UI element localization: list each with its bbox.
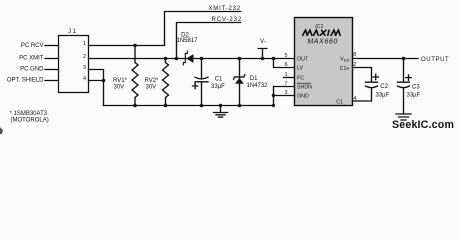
svg-text:30V: 30V — [146, 84, 157, 90]
svg-text:RCV-232: RCV-232 — [212, 17, 243, 23]
svg-text:33µF: 33µF — [211, 84, 225, 90]
svg-text:* 1SMB30AT3: * 1SMB30AT3 — [10, 111, 48, 117]
svg-text:8: 8 — [353, 52, 356, 58]
svg-text:3: 3 — [83, 65, 86, 71]
svg-text:SeekIC.com: SeekIC.com — [392, 119, 454, 131]
svg-text:PC XMIT: PC XMIT — [19, 55, 44, 61]
svg-text:VDD: VDD — [340, 57, 349, 63]
svg-text:D1: D1 — [250, 76, 258, 82]
svg-text:1N4732: 1N4732 — [247, 83, 269, 89]
svg-text:XMIT-232: XMIT-232 — [209, 6, 241, 12]
svg-text:(MOTOROLA): (MOTOROLA) — [11, 117, 49, 123]
svg-text:4: 4 — [353, 96, 356, 102]
svg-text:C3: C3 — [412, 84, 420, 90]
svg-text:PC GND: PC GND — [20, 67, 44, 73]
svg-text:4: 4 — [83, 76, 86, 82]
svg-text:2: 2 — [353, 62, 356, 68]
svg-text:SHDN: SHDN — [297, 85, 312, 91]
svg-text:30V: 30V — [114, 84, 125, 90]
svg-text:1N5817: 1N5817 — [176, 38, 198, 44]
svg-text:33µF: 33µF — [407, 93, 421, 99]
svg-text:C1+: C1+ — [340, 66, 350, 72]
svg-text:5: 5 — [284, 53, 287, 59]
svg-text:V-: V- — [260, 39, 266, 45]
svg-text:1: 1 — [83, 41, 86, 47]
svg-text:J 1: J 1 — [68, 29, 77, 35]
svg-text:RV2*: RV2* — [145, 78, 160, 84]
svg-text:33µF: 33µF — [376, 92, 390, 98]
svg-text:OUT: OUT — [297, 57, 309, 63]
svg-text:1: 1 — [284, 72, 287, 78]
svg-text:FC: FC — [297, 76, 304, 82]
svg-text:GND: GND — [297, 94, 309, 100]
svg-text:RV1*: RV1* — [113, 78, 128, 84]
svg-text:OPT. SHIELD: OPT. SHIELD — [7, 78, 44, 84]
svg-text:6: 6 — [284, 62, 287, 68]
svg-text:2: 2 — [83, 54, 86, 60]
svg-text:C2: C2 — [380, 84, 388, 90]
svg-text:PC RCV: PC RCV — [21, 43, 44, 49]
svg-text:LV: LV — [297, 66, 304, 72]
svg-text:OUTPUT: OUTPUT — [421, 57, 449, 63]
svg-text:7: 7 — [284, 81, 287, 87]
svg-text:C1: C1 — [215, 76, 223, 82]
svg-text:MAX660: MAX660 — [307, 39, 337, 46]
svg-text:C1: C1 — [336, 100, 343, 106]
svg-text:3: 3 — [284, 90, 287, 96]
